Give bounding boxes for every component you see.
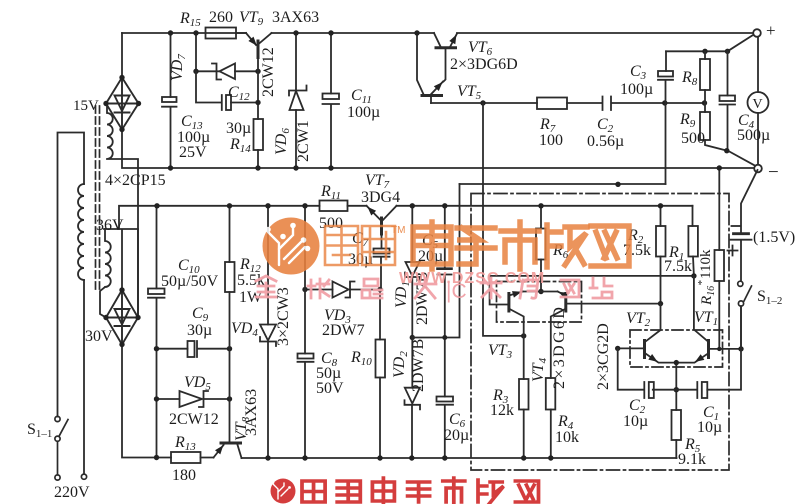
svg-text:2DW7: 2DW7 <box>322 322 365 339</box>
transistor VT5 <box>417 33 443 103</box>
zener diode VD2 <box>405 338 421 459</box>
capacitor C6 <box>437 397 454 459</box>
capacitor C7 <box>374 234 390 290</box>
resistor R13 <box>171 452 201 463</box>
zener diode VD4 <box>260 206 276 458</box>
svg-text:VT4: VT4 <box>530 357 549 382</box>
resistor R16 <box>715 250 725 281</box>
resistor R15 <box>206 28 237 39</box>
watermark char wang (solid) <box>591 226 629 266</box>
svg-text:VD6: VD6 <box>273 128 292 155</box>
svg-text:500: 500 <box>681 130 705 147</box>
minus output terminal <box>754 165 762 173</box>
svg-text:R10: R10 <box>350 349 372 368</box>
dash-dot enclosure VT1/VT2 <box>630 330 723 367</box>
capacitor C13 <box>162 33 177 168</box>
watermark row2 cai <box>481 278 501 298</box>
watermark row2 zhan <box>590 278 612 298</box>
watermark row2 da <box>415 278 436 298</box>
bottom banner logo disc <box>271 479 296 504</box>
wire 36V winding top connections <box>104 229 138 318</box>
resistor R5 <box>672 410 682 440</box>
svg-text:R9: R9 <box>679 111 696 130</box>
svg-text:2×3DG6D: 2×3DG6D <box>551 307 568 389</box>
bottom banner char b1 <box>302 481 325 502</box>
svg-text:VT3: VT3 <box>488 342 513 361</box>
svg-text:−: − <box>768 162 779 183</box>
capacitor C3 <box>658 51 673 184</box>
svg-text:10µ: 10µ <box>697 419 722 436</box>
svg-text:R14: R14 <box>229 136 251 155</box>
capacitor C4 <box>720 51 758 167</box>
battery plus mark <box>728 246 738 256</box>
svg-text:VT1: VT1 <box>694 309 718 328</box>
zener diode VD3 <box>305 282 380 298</box>
wire 15V bridge feed <box>121 33 123 78</box>
svg-text:R15: R15 <box>179 10 201 29</box>
resistor R6 <box>536 229 546 260</box>
wire bottom collector rail <box>201 457 677 460</box>
svg-text:30µ: 30µ <box>226 120 251 137</box>
svg-text:C3: C3 <box>630 63 647 82</box>
transistor VT9 <box>246 33 272 119</box>
watermark row2 zui <box>362 279 382 298</box>
transformer 15V secondary <box>107 104 138 318</box>
svg-text:2DW7B: 2DW7B <box>410 339 427 392</box>
svg-text:VD2: VD2 <box>391 351 410 378</box>
svg-text:C12: C12 <box>228 84 250 103</box>
resistor R3 <box>519 379 529 410</box>
svg-text:3×2CW3: 3×2CW3 <box>275 287 292 346</box>
svg-text:30V: 30V <box>85 328 113 345</box>
svg-text:2CW1: 2CW1 <box>295 120 312 162</box>
svg-text:25V: 25V <box>179 144 207 161</box>
svg-text:500: 500 <box>319 215 343 232</box>
svg-text:R13: R13 <box>174 434 196 453</box>
svg-text:10k: 10k <box>555 429 579 446</box>
capacitor C1 10u <box>697 382 707 398</box>
watermark char chang (solid) <box>547 225 587 267</box>
bottom banner char b6 <box>478 480 502 504</box>
svg-text:S1–2: S1–2 <box>757 288 782 307</box>
svg-text:|C: |C <box>446 280 467 303</box>
resistor R12 <box>225 262 235 292</box>
svg-text:3DG4: 3DG4 <box>361 189 400 206</box>
svg-text:0.56µ: 0.56µ <box>587 133 624 150</box>
resistor R14 <box>254 119 264 150</box>
watermark row2 quan <box>256 276 276 297</box>
watermark char dian (solid) <box>413 222 451 269</box>
svg-text:(1.5V): (1.5V) <box>753 229 795 246</box>
resistor R1 <box>688 226 698 257</box>
resistor R2 <box>656 226 666 257</box>
svg-text:9.1k: 9.1k <box>678 451 706 468</box>
watermark char ku (outline) <box>362 226 395 265</box>
svg-text:110k: 110k <box>698 249 714 279</box>
transformer core <box>96 106 100 291</box>
zener diode VD1 <box>405 206 420 338</box>
capacitor C5 <box>438 206 452 397</box>
svg-text:VT5: VT5 <box>457 83 482 102</box>
svg-text:VT2: VT2 <box>626 310 651 329</box>
svg-text:10µ: 10µ <box>623 413 648 430</box>
wire top rail right segment <box>457 32 754 34</box>
battery 1.5V <box>731 170 758 281</box>
switch S1-1 <box>55 416 87 480</box>
wire VT5 base to R8 node <box>431 102 705 104</box>
bridge rectifier 15V (4x2CP15) <box>106 78 139 130</box>
resistor R8 <box>700 59 710 90</box>
wire lower bus y=206 <box>119 206 693 229</box>
svg-text:260: 260 <box>209 9 233 26</box>
resistor R9 <box>700 112 710 140</box>
wire VT1/VT2 emitters to R5 <box>675 363 677 410</box>
watermark row2 gou <box>520 280 538 298</box>
voltmeter V <box>748 37 769 165</box>
svg-text:S1–1: S1–1 <box>27 421 52 440</box>
watermark row2 qiu <box>308 279 329 298</box>
zener diode VD6 <box>289 33 307 168</box>
resistor R11 <box>320 201 348 212</box>
transformer 36V secondary <box>100 229 111 318</box>
wire top rail left segment <box>122 32 246 34</box>
svg-text:50V: 50V <box>316 380 344 397</box>
svg-text:VD4: VD4 <box>231 320 258 339</box>
svg-text:R8: R8 <box>681 69 698 88</box>
transistor VT6 <box>434 33 457 82</box>
svg-text:3AX63: 3AX63 <box>272 9 319 26</box>
battery minus mark <box>732 225 741 227</box>
watermark char wei (outline) <box>325 226 358 265</box>
zener diode VD5 <box>157 391 230 407</box>
resistor R4 <box>546 378 556 410</box>
wire common bus y=168 <box>122 130 754 169</box>
transistor VT3 <box>490 276 694 336</box>
svg-text:R16*: R16* <box>696 280 717 306</box>
wire multivibrator coupling y=389.7 <box>618 306 741 389</box>
bottom banner char b2 <box>337 481 360 502</box>
zener diode VD7 <box>196 33 258 80</box>
svg-text:2CW12: 2CW12 <box>260 47 277 97</box>
bottom banner char b3 <box>372 478 394 504</box>
svg-text:50µ/50V: 50µ/50V <box>161 273 219 290</box>
bottom banner char b4 <box>408 482 430 502</box>
svg-text:180: 180 <box>172 467 196 484</box>
transistor VT4 <box>551 292 661 379</box>
svg-text:500µ: 500µ <box>737 127 770 144</box>
dash-dot enclosure VT3/VT4 <box>497 282 582 323</box>
plus output terminal <box>753 29 761 37</box>
bottom banner char b7 <box>515 481 538 502</box>
svg-text:30µ: 30µ <box>187 322 212 339</box>
wire VD node to C5 line <box>412 184 459 338</box>
svg-text:2×3DG6D: 2×3DG6D <box>450 56 518 73</box>
svg-text:7.5k: 7.5k <box>664 258 692 275</box>
svg-text:VD5: VD5 <box>184 374 211 393</box>
switch S1-2 <box>738 281 752 349</box>
svg-text:2×3CG2D: 2×3CG2D <box>595 323 612 390</box>
capacitor C11 <box>323 33 340 168</box>
watermark row2 wang2 <box>561 280 579 297</box>
transistor VT8 <box>214 443 242 458</box>
watermark char zi (solid) <box>457 228 495 264</box>
wire top rail mid segment <box>272 32 435 34</box>
svg-text:R11: R11 <box>320 183 341 202</box>
bridge rectifier 30V <box>106 290 138 345</box>
svg-text:+: + <box>766 21 776 40</box>
svg-text:100µ: 100µ <box>347 104 380 121</box>
watermark logo disc <box>263 218 320 275</box>
svg-text:100: 100 <box>539 132 563 149</box>
capacitor C8 <box>298 206 314 458</box>
svg-text:36V: 36V <box>96 217 124 234</box>
capacitor C12 <box>196 71 258 110</box>
resistor R10 <box>376 340 386 378</box>
svg-text:3AX63: 3AX63 <box>243 389 260 436</box>
wire feedback y=184 <box>460 183 666 185</box>
wire 30V bridge minus to bottom wire <box>122 345 171 458</box>
svg-text:100µ: 100µ <box>620 81 653 98</box>
svg-text:VT9: VT9 <box>239 9 264 28</box>
svg-text:12k: 12k <box>490 402 514 419</box>
capacitor C9 <box>157 341 230 357</box>
svg-text:20µ: 20µ <box>444 427 469 444</box>
transistor VT7 <box>367 206 397 234</box>
wire output node to C3/R8/C4 <box>666 35 754 52</box>
transformer primary winding <box>58 133 85 475</box>
svg-text:220V: 220V <box>54 484 90 501</box>
svg-text:2CW12: 2CW12 <box>169 411 219 428</box>
transistor VT1 <box>676 276 741 363</box>
svg-text:15V: 15V <box>73 98 99 114</box>
capacitor C2 0.56u <box>603 97 612 111</box>
dash-dot enclosure big box <box>471 194 729 471</box>
capacitor C2 10u <box>644 382 654 398</box>
watermark char shi (solid) <box>501 222 539 269</box>
svg-text:4×2CP15: 4×2CP15 <box>105 172 166 189</box>
svg-text:VD7: VD7 <box>169 54 188 81</box>
transistor VT2 <box>618 304 677 363</box>
svg-text:V: V <box>753 97 763 112</box>
wire VT3 collector sense line <box>483 103 524 336</box>
capacitor C10 <box>148 206 165 458</box>
bottom banner char b5 <box>443 478 465 504</box>
resistor R7 <box>537 98 567 110</box>
